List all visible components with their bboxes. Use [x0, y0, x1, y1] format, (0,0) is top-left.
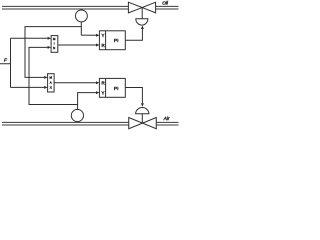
- PI1 divider: [105, 31, 107, 50]
- FT1 drop wire: [80, 22, 82, 35]
- svg-text:PI: PI: [114, 86, 119, 92]
- arrow into PI2 Y input: [96, 91, 99, 94]
- PI1 label: [114, 38, 119, 44]
- PI1 pin R: [102, 43, 105, 48]
- valve V2 actuator dome: [136, 108, 149, 114]
- flow transmitter FT1 circle: [75, 10, 87, 22]
- PI2 label: [114, 86, 119, 92]
- wire PI2 output to valve V2 actuator: [125, 88, 142, 104]
- arrow into PI2 R input: [96, 81, 99, 84]
- arrow into MAX upper input: [44, 76, 47, 79]
- oil pipe right segment: [156, 6, 179, 9]
- air pipe right segment: [156, 122, 178, 125]
- wire FT2 to MIN lower input: [29, 47, 78, 104]
- valve V1 actuator dome: [136, 19, 148, 25]
- controller PI2 box: [99, 78, 125, 97]
- svg-text:R: R: [102, 43, 105, 48]
- PI2 divider: [105, 78, 107, 97]
- PI1 pin Y: [102, 33, 105, 38]
- valve V2 right triangle: [143, 118, 157, 129]
- valve V1 right triangle: [142, 2, 155, 13]
- wire FT1 branch to MAX input: [25, 27, 81, 78]
- wire MAX output to PI2 R input: [54, 82, 96, 84]
- svg-text:X: X: [50, 86, 52, 90]
- svg-text:Air: Air: [163, 116, 170, 121]
- valve V1 left triangle: [128, 2, 142, 13]
- PI2 pin Y: [102, 90, 105, 95]
- air pipe left segment: [2, 122, 129, 125]
- svg-text:Y: Y: [102, 90, 105, 95]
- svg-text:A: A: [50, 81, 52, 85]
- selector MIN box: [51, 36, 58, 53]
- svg-text:R: R: [102, 81, 105, 86]
- label Oil: [162, 1, 169, 6]
- valve V1 stem: [141, 8, 143, 19]
- label F: [4, 58, 8, 63]
- svg-text:N: N: [53, 46, 55, 50]
- selector MAX box: [48, 74, 55, 92]
- arrow into PI1 Y input: [96, 34, 99, 37]
- label Air: [163, 116, 170, 121]
- wire F to MAX lower input: [11, 86, 45, 88]
- controller PI1 box: [99, 31, 125, 50]
- oil pipe left segment: [2, 6, 128, 9]
- flow transmitter FT2 circle: [71, 109, 83, 121]
- svg-text:F: F: [4, 58, 8, 63]
- wire F to MIN upper input: [11, 37, 48, 39]
- arrow into MIN upper input: [48, 37, 51, 40]
- wire FT1 to PI1 Y input: [81, 34, 96, 36]
- wire MIN output to PI1 R input: [58, 44, 97, 46]
- svg-text:Oil: Oil: [162, 1, 169, 6]
- wire PI1 output to valve V1 actuator: [125, 29, 142, 41]
- arrow into PI1 R input: [96, 44, 99, 47]
- arrow into MIN lower input: [48, 46, 51, 49]
- svg-text:Y: Y: [102, 33, 105, 38]
- svg-text:PI: PI: [114, 38, 119, 44]
- arrow up into V1 actuator: [141, 26, 144, 30]
- wire F demand input: [0, 38, 11, 87]
- arrow down into V2 actuator: [141, 103, 144, 107]
- valve V2 left triangle: [129, 118, 143, 129]
- PI2 pin R: [102, 81, 105, 86]
- arrow into MAX lower input: [44, 86, 47, 89]
- valve V2 stem: [141, 114, 143, 123]
- FT2 riser wire: [78, 93, 97, 110]
